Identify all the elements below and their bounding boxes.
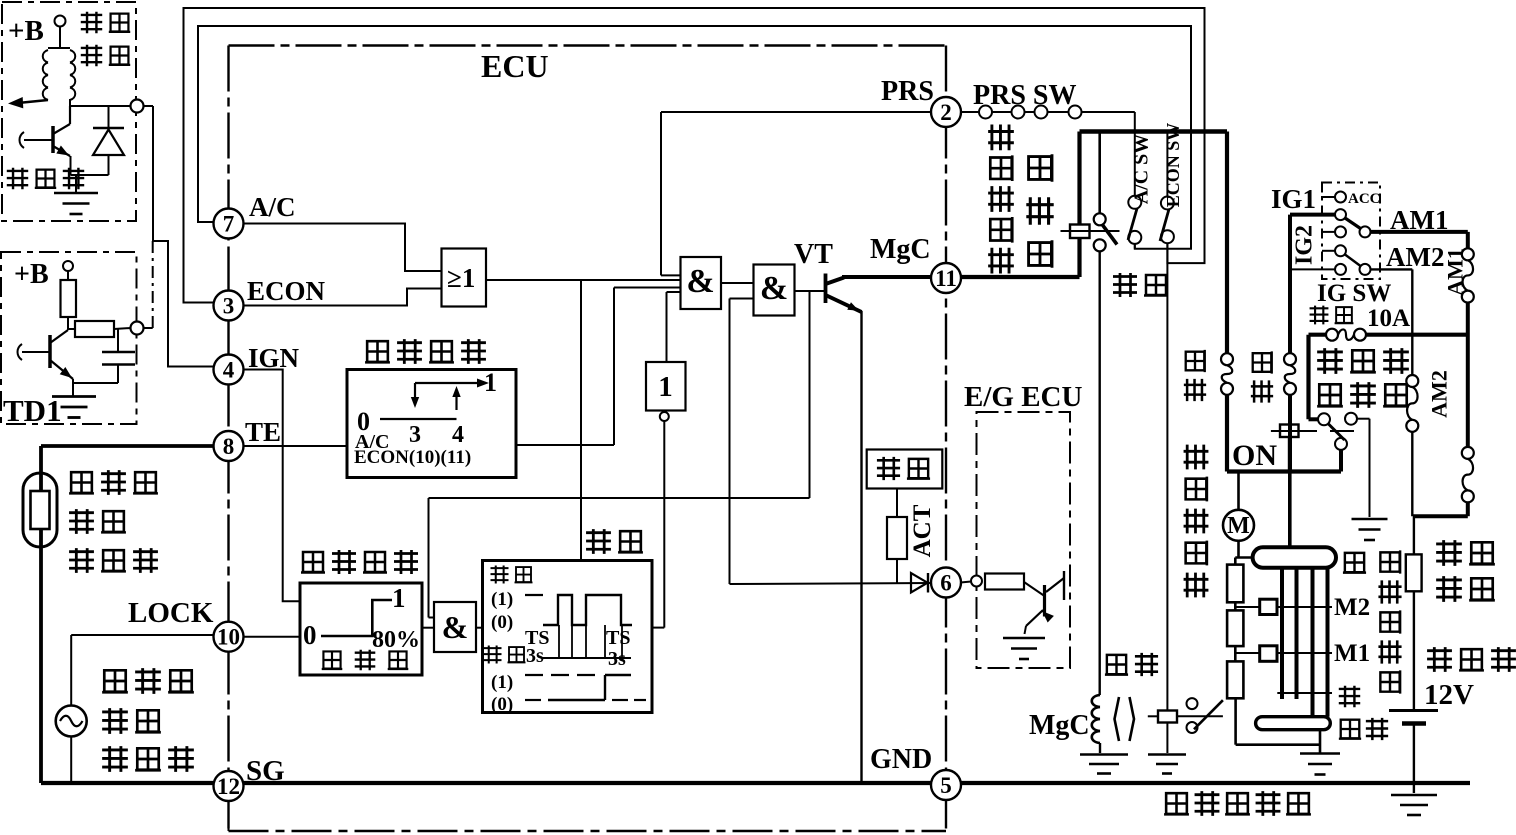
svg-text:6: 6 [940,571,952,596]
svg-text:ACC: ACC [1348,191,1381,207]
svg-text:11: 11 [935,266,957,291]
svg-text:3s: 3s [526,645,544,667]
svg-text:0: 0 [303,620,317,650]
svg-text:ECU: ECU [481,48,549,84]
svg-text:≥1: ≥1 [447,263,475,293]
svg-text:8: 8 [223,434,235,459]
svg-text:10A: 10A [1367,305,1410,332]
svg-text:E/G ECU: E/G ECU [964,381,1082,413]
svg-text:TE: TE [245,417,281,447]
svg-text:LOCK: LOCK [128,597,214,629]
svg-text:&: & [760,270,788,307]
svg-text:ECON SW: ECON SW [1163,123,1183,208]
svg-text:TD1: TD1 [3,393,62,428]
svg-text:+B: +B [8,15,44,47]
svg-text:MgC: MgC [870,234,931,265]
svg-text:10: 10 [217,625,240,650]
svg-text:PRS: PRS [881,76,934,107]
svg-text:2: 2 [940,100,952,125]
svg-text:7: 7 [223,212,235,237]
svg-text:(0): (0) [491,694,513,715]
svg-text:ECON: ECON [247,276,326,306]
svg-text:ACT: ACT [909,504,936,557]
svg-text:+B: +B [14,259,49,290]
svg-text:M2: M2 [1334,594,1370,621]
svg-text:5: 5 [940,773,952,798]
svg-text:3: 3 [223,294,235,319]
svg-text:12: 12 [217,774,240,799]
svg-text:4: 4 [452,422,464,448]
svg-text:&: & [442,609,469,645]
svg-text:AM2: AM2 [1386,242,1444,272]
svg-text:(1): (1) [491,589,513,610]
svg-text:M1: M1 [1334,640,1370,667]
svg-text:IG1: IG1 [1271,184,1316,214]
svg-text:IG SW: IG SW [1317,280,1391,307]
svg-text:GND: GND [870,744,932,775]
svg-text:A/C: A/C [249,192,296,222]
svg-text:3: 3 [409,422,421,448]
svg-text:12V: 12V [1424,679,1474,711]
svg-text:IG2: IG2 [1291,225,1317,265]
svg-text:AM1: AM1 [1443,248,1468,296]
svg-text:ON: ON [1232,439,1277,472]
svg-text:ECON(10)(11): ECON(10)(11) [354,447,471,468]
svg-text:(1): (1) [491,672,513,693]
svg-text:VT: VT [794,239,833,270]
svg-text:AM2: AM2 [1427,370,1452,418]
svg-text:&: & [686,263,714,300]
svg-text:1: 1 [392,583,406,613]
svg-text:80%: 80% [372,627,420,653]
svg-text:4: 4 [223,358,235,383]
svg-text:M: M [1227,513,1250,539]
svg-text:A/C SW: A/C SW [1131,134,1153,205]
svg-text:1: 1 [658,371,673,403]
svg-text:(0): (0) [491,612,513,633]
svg-text:MgC: MgC [1029,710,1090,741]
svg-text:TS: TS [606,627,630,649]
